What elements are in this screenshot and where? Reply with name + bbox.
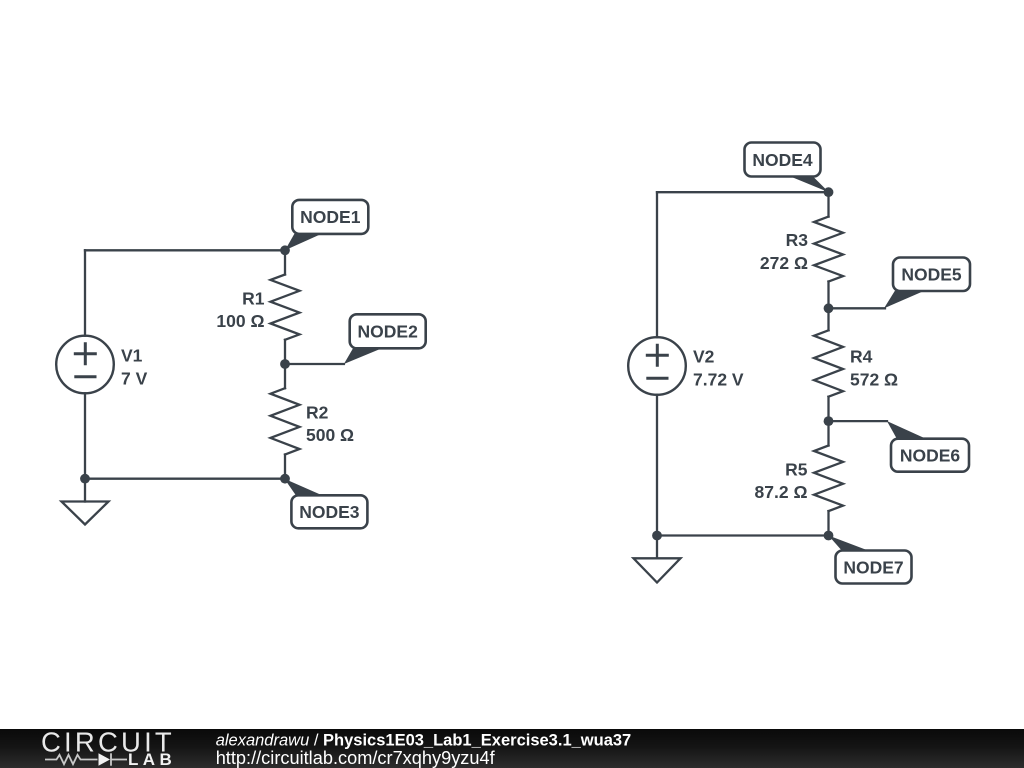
node NODE2	[344, 314, 426, 364]
wire R4 bottom lead	[827, 397, 829, 421]
wire R1 bottom lead	[284, 340, 286, 364]
wire R5 top lead	[827, 421, 829, 445]
svg-text:R5: R5	[785, 459, 808, 479]
wire top right circuit	[657, 191, 829, 193]
resistor R3	[814, 217, 843, 282]
node NODE5	[884, 258, 970, 309]
svg-text:NODE4: NODE4	[752, 150, 813, 170]
svg-text:272 Ω: 272 Ω	[760, 253, 808, 273]
footer title text	[216, 731, 632, 768]
svg-text:100 Ω: 100 Ω	[216, 311, 264, 331]
wire left rail lower V2	[656, 395, 658, 536]
wire R3 top lead	[827, 192, 829, 216]
junction node B	[280, 359, 290, 369]
voltage source V2	[628, 337, 686, 395]
resistor R4	[814, 330, 843, 396]
wire node6 stub	[829, 420, 888, 422]
wire bottom left circuit	[85, 478, 285, 480]
junction node E	[824, 187, 834, 197]
svg-text:500 Ω: 500 Ω	[306, 425, 354, 445]
resistor R1	[271, 275, 300, 340]
wire R1 top lead	[284, 250, 286, 274]
logo resistor-diode glyph	[45, 753, 127, 765]
junction node C	[80, 474, 90, 484]
svg-text:87.2 Ω: 87.2 Ω	[755, 482, 808, 502]
wire R2 top lead	[284, 364, 286, 388]
junction node G	[824, 416, 834, 426]
wire ground stem right	[656, 536, 658, 559]
node NODE3	[284, 479, 367, 529]
svg-text:V2: V2	[693, 347, 715, 367]
svg-text:LAB: LAB	[128, 750, 176, 768]
node NODE1	[285, 200, 368, 250]
svg-text:NODE5: NODE5	[901, 265, 962, 285]
svg-text:alexandrawu / Physics1E03_Lab1: alexandrawu / Physics1E03_Lab1_Exercise3…	[216, 731, 632, 749]
wire node2 stub	[285, 363, 344, 365]
wire left rail lower V1	[84, 393, 86, 478]
wire R5 bottom lead	[827, 511, 829, 535]
node NODE6	[887, 421, 969, 472]
resistor R5	[814, 446, 843, 512]
svg-text:572 Ω: 572 Ω	[850, 369, 898, 389]
wire top left circuit	[85, 249, 285, 251]
junction node H	[652, 531, 662, 541]
svg-text:7.72 V: 7.72 V	[693, 369, 744, 389]
logo CircuitLab wordmark	[41, 727, 176, 768]
wire R3 bottom lead	[827, 282, 829, 309]
voltage source V1	[56, 336, 114, 394]
wire R2 bottom lead	[284, 455, 286, 479]
svg-text:NODE7: NODE7	[843, 557, 903, 577]
svg-text:V1: V1	[121, 346, 143, 366]
resistor R2	[271, 388, 300, 454]
svg-text:NODE6: NODE6	[900, 446, 961, 466]
svg-text:NODE2: NODE2	[358, 322, 419, 342]
svg-text:R2: R2	[306, 402, 329, 422]
junction node D	[280, 474, 290, 484]
svg-text:R1: R1	[242, 288, 265, 308]
footer bar	[0, 729, 1024, 768]
ground right circuit	[634, 558, 681, 582]
node NODE7	[829, 536, 912, 584]
wire R4 top lead	[827, 308, 829, 330]
svg-text:R4: R4	[850, 347, 873, 367]
svg-text:NODE1: NODE1	[300, 207, 361, 227]
junction node A	[280, 245, 290, 255]
svg-text:7 V: 7 V	[121, 368, 148, 388]
junction node I	[824, 531, 834, 541]
ground left circuit	[62, 502, 109, 525]
node NODE4	[745, 143, 829, 193]
wire ground stem left	[84, 479, 86, 502]
junction node F	[824, 303, 834, 313]
wire node5 stub	[829, 307, 886, 309]
wire left rail upper V2	[656, 192, 658, 337]
svg-text:NODE3: NODE3	[299, 502, 360, 522]
svg-text:R3: R3	[786, 230, 809, 250]
wire bottom right circuit	[657, 534, 829, 536]
wire left rail upper V1	[84, 250, 86, 335]
svg-text:http://circuitlab.com/cr7xqhy9: http://circuitlab.com/cr7xqhy9yzu4f	[216, 748, 496, 768]
